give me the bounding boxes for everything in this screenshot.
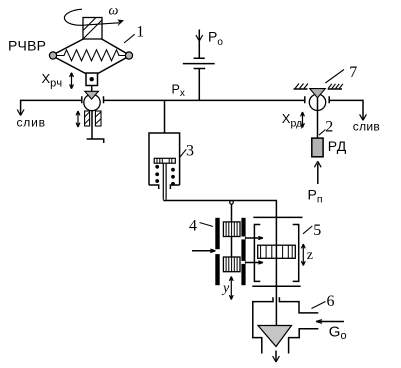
svg-text:4: 4 [189,217,197,234]
svg-text:7: 7 [349,64,357,81]
svg-text:Gо: Gо [329,323,347,342]
svg-text:1: 1 [136,23,144,40]
svg-text:РЧВР: РЧВР [8,38,46,54]
svg-text:Рх: Рх [172,82,185,99]
svg-text:2: 2 [325,118,333,135]
svg-text:ω: ω [109,3,119,18]
svg-text:y: y [221,281,230,296]
svg-text:5: 5 [313,222,321,239]
svg-text:РД: РД [328,138,347,154]
svg-text:Хрч: Хрч [42,71,63,90]
svg-text:3: 3 [186,143,194,160]
svg-text:Ро: Ро [208,29,223,49]
svg-text:слив: слив [17,116,46,130]
svg-text:Рп: Рп [308,186,323,205]
svg-text:z: z [307,248,313,263]
svg-text:Хрд: Хрд [282,111,302,130]
svg-text:6: 6 [327,293,335,310]
svg-text:слив: слив [353,119,380,133]
